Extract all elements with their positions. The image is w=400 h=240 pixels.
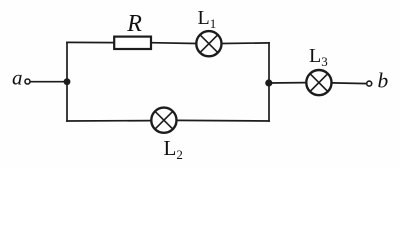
- wire right vertical upper: [268, 43, 270, 83]
- lamp L2: [151, 108, 176, 133]
- lamp L3: [306, 70, 331, 95]
- svg-text:L1: L1: [198, 7, 217, 31]
- svg-text:L2: L2: [164, 136, 183, 162]
- wire right junction to L3: [269, 82, 305, 84]
- left junction: [64, 78, 71, 85]
- wire resistor to L1: [152, 42, 196, 45]
- terminal a: [25, 79, 30, 84]
- wire right vertical lower: [268, 83, 270, 121]
- terminal b: [367, 81, 372, 86]
- svg-text:b: b: [378, 68, 389, 92]
- right junction: [265, 79, 272, 86]
- wire bottom rail left to L2: [67, 120, 151, 122]
- svg-text:R: R: [126, 11, 142, 37]
- lamp L1: [196, 31, 221, 56]
- svg-text:L3: L3: [309, 45, 328, 69]
- wire left vertical up: [66, 42, 68, 81]
- wire left vertical down: [66, 82, 68, 121]
- svg-text:a: a: [12, 65, 23, 89]
- wire top rail left to resistor: [67, 41, 114, 43]
- wire L1 to top-right corner: [223, 42, 269, 45]
- wire L2 to bottom-right corner: [177, 119, 269, 122]
- wire a to left junction: [30, 81, 67, 83]
- resistor R: [114, 37, 151, 49]
- wire L3 to terminal b: [333, 82, 367, 85]
